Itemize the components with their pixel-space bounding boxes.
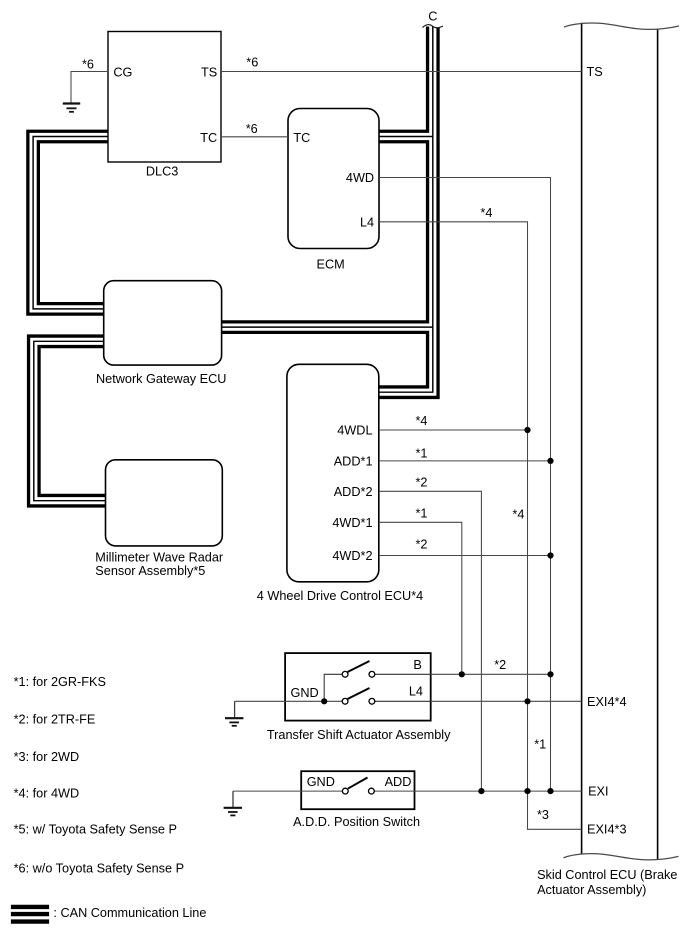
svg-text:*1: *1 bbox=[416, 506, 428, 520]
wire L4/EXI4*4: Transfer Shift Actuator L4 to Skid Control ECU bbox=[431, 700, 582, 702]
svg-text:L4: L4 bbox=[360, 216, 374, 230]
svg-text:*2: for 2TR-FE: *2: for 2TR-FE bbox=[14, 713, 96, 727]
switch S3 contacts in A.D.D. Position Switch bbox=[342, 778, 374, 794]
wire 4WD*1 bbox=[379, 522, 462, 674]
svg-text:EXI4*3: EXI4*3 bbox=[587, 823, 627, 837]
junction dot EXI x 4WD line bbox=[547, 788, 553, 794]
svg-text:GND: GND bbox=[307, 775, 335, 789]
junction dot transfer GND common bbox=[321, 698, 327, 704]
svg-text:*6: *6 bbox=[246, 56, 258, 70]
wire switch common riser in Transfer box bbox=[324, 674, 342, 701]
svg-text:4 Wheel Drive Control ECU*4: 4 Wheel Drive Control ECU*4 bbox=[257, 589, 423, 603]
A.D.D. Position Switch box bbox=[301, 771, 414, 809]
wire ADD*1 bbox=[379, 460, 551, 462]
svg-text:DLC3: DLC3 bbox=[146, 165, 178, 179]
wire ADD*2 bbox=[379, 491, 481, 791]
svg-text:*6: *6 bbox=[246, 122, 258, 136]
svg-text:: CAN Communication Line: : CAN Communication Line bbox=[53, 906, 206, 920]
Skid Control ECU right edge bbox=[657, 29, 659, 859]
svg-text:*4: for 4WD: *4: for 4WD bbox=[14, 786, 80, 800]
CAN bus: DLC3 to Network Gateway ECU (triple line) bbox=[33, 137, 111, 309]
switch S2 lower contacts in Transfer box bbox=[342, 688, 375, 704]
CAN bus: main trunk from node C with ECM branch, Network Gateway branch, drop to 4WD Control ECU bbox=[218, 27, 433, 393]
svg-text:TS: TS bbox=[587, 65, 603, 79]
4 Wheel Drive Control ECU box bbox=[287, 364, 379, 582]
junction dot B x 4WD*1 bbox=[459, 671, 465, 677]
wire 4WD: ECM 4WD down to EXI junction bbox=[379, 178, 551, 792]
svg-text:*4: *4 bbox=[416, 414, 428, 428]
svg-text:*1: *1 bbox=[534, 737, 546, 751]
legend CAN line symbol bbox=[11, 907, 49, 922]
Skid Control ECU bottom torn edge bbox=[564, 854, 679, 860]
wire 4WDL bbox=[379, 429, 528, 431]
junction dot EXI x L4 line bbox=[524, 788, 530, 794]
svg-text:*6: *6 bbox=[82, 57, 94, 71]
svg-text:L4: L4 bbox=[409, 685, 423, 699]
DLC3 box bbox=[108, 32, 221, 163]
svg-text:ADD*1: ADD*1 bbox=[334, 455, 373, 469]
wire ADD/EXI: A.D.D. Position Switch to Skid Control ECU bbox=[374, 790, 581, 792]
junction dot 4WD*2 x 4WD line bbox=[547, 552, 553, 558]
ground G1 (DLC3 CG) bbox=[63, 104, 80, 112]
Network Gateway ECU box bbox=[104, 281, 222, 365]
svg-text:ECM: ECM bbox=[317, 257, 345, 271]
Transfer Shift Actuator Assembly box bbox=[285, 653, 431, 721]
svg-text:B: B bbox=[413, 658, 421, 672]
wire TS: DLC3 TS to Skid Control ECU bbox=[221, 71, 582, 73]
svg-text:4WDL: 4WDL bbox=[337, 424, 372, 438]
svg-text:*2: *2 bbox=[416, 476, 428, 490]
svg-text:ADD*2: ADD*2 bbox=[334, 485, 373, 499]
wire L4 inside Transfer box bbox=[375, 700, 431, 702]
node C break mark at top of bus bbox=[423, 6, 444, 28]
svg-text:Transfer Shift Actuator Assemb: Transfer Shift Actuator Assembly bbox=[267, 728, 451, 742]
svg-text:4WD*1: 4WD*1 bbox=[332, 516, 372, 530]
junction dot ADD*1 x 4WD line bbox=[547, 458, 553, 464]
wire B inside Transfer box bbox=[375, 673, 431, 675]
svg-text:*1: for 2GR-FKS: *1: for 2GR-FKS bbox=[14, 675, 106, 689]
wire L4/*4: ECM L4 down to EXI4*3 bbox=[379, 222, 582, 830]
wire B: Transfer Shift Actuator B output bbox=[431, 673, 551, 675]
Skid Control ECU left edge bbox=[581, 23, 583, 854]
svg-text:C: C bbox=[428, 9, 437, 23]
svg-text:EXI4*4: EXI4*4 bbox=[587, 695, 627, 709]
svg-text:CG: CG bbox=[113, 66, 132, 80]
svg-text:*1: *1 bbox=[416, 446, 428, 460]
svg-text:*2: *2 bbox=[416, 538, 428, 552]
svg-text:4WD*2: 4WD*2 bbox=[332, 549, 372, 563]
svg-text:A.D.D. Position Switch: A.D.D. Position Switch bbox=[293, 815, 420, 829]
svg-text:*4: *4 bbox=[512, 508, 524, 522]
Millimeter Wave Radar Sensor Assembly box bbox=[106, 460, 223, 546]
CAN bus: Network Gateway ECU to Millimeter Wave Radar Sensor (triple line) bbox=[34, 341, 107, 500]
svg-text:GND: GND bbox=[291, 686, 319, 700]
svg-text:Millimeter Wave Radar: Millimeter Wave Radar bbox=[95, 551, 224, 565]
wire CG: DLC3 CG to ground bbox=[71, 72, 108, 104]
svg-text:*2: *2 bbox=[494, 658, 506, 672]
svg-text:Actuator Assembly): Actuator Assembly) bbox=[537, 883, 646, 897]
svg-text:Network Gateway ECU: Network Gateway ECU bbox=[96, 372, 226, 386]
svg-text:TC: TC bbox=[200, 131, 217, 145]
wire GND: A.D.D. Position Switch ground bbox=[233, 790, 343, 792]
svg-text:Sensor Assembly*5: Sensor Assembly*5 bbox=[95, 564, 205, 578]
wire GND: Transfer Shift Actuator ground bbox=[235, 700, 343, 702]
Skid Control ECU top torn edge bbox=[564, 23, 679, 29]
svg-text:*4: *4 bbox=[480, 206, 492, 220]
junction dot 4WDL x L4 line bbox=[524, 427, 530, 433]
switch S1 upper contacts in Transfer box bbox=[342, 661, 375, 677]
junction dot B x 4WD line bbox=[547, 671, 553, 677]
svg-text:TC: TC bbox=[293, 131, 310, 145]
ground G2 (Transfer Shift Actuator) bbox=[225, 701, 243, 726]
svg-text:*6: w/o Toyota Safety Sense P: *6: w/o Toyota Safety Sense P bbox=[14, 862, 184, 876]
wire TC: DLC3 TC to ECM TC bbox=[221, 136, 288, 138]
svg-text:EXI: EXI bbox=[588, 784, 608, 798]
svg-text:*3: *3 bbox=[537, 808, 549, 822]
ground G3 (A.D.D. Position Switch) bbox=[224, 791, 242, 815]
svg-text:*3: for 2WD: *3: for 2WD bbox=[14, 750, 80, 764]
wire 4WD*2 bbox=[379, 555, 551, 557]
junction dot EXI x ADD*2 bbox=[478, 788, 484, 794]
svg-text:TS: TS bbox=[201, 66, 217, 80]
junction dot L4 x transfer L4 wire bbox=[524, 698, 530, 704]
svg-text:4WD: 4WD bbox=[346, 171, 374, 185]
ECM box bbox=[288, 109, 379, 249]
svg-text:ADD: ADD bbox=[385, 775, 412, 789]
svg-text:Skid Control ECU (Brake: Skid Control ECU (Brake bbox=[537, 868, 677, 882]
svg-text:*5: w/ Toyota Safety Sense P: *5: w/ Toyota Safety Sense P bbox=[14, 823, 177, 837]
